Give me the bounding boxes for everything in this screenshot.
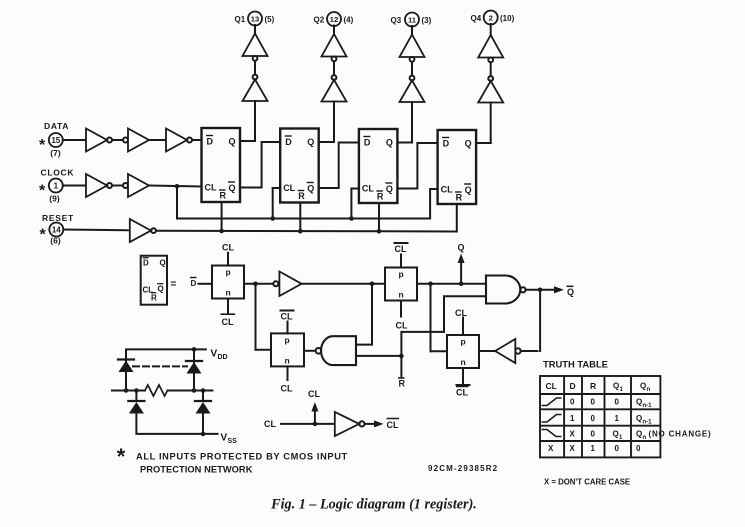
svg-text:X: X xyxy=(548,444,554,453)
svg-text:V: V xyxy=(211,349,218,360)
svg-text:Q: Q xyxy=(636,398,642,407)
svg-text:R: R xyxy=(220,191,227,201)
svg-text:15: 15 xyxy=(51,136,60,145)
svg-text:0: 0 xyxy=(591,414,596,423)
svg-text:CL: CL xyxy=(546,381,557,391)
svg-text:1: 1 xyxy=(591,444,596,453)
svg-text:R: R xyxy=(590,381,596,391)
svg-text:n: n xyxy=(285,356,290,366)
svg-text:p: p xyxy=(399,269,404,279)
svg-text:*: * xyxy=(117,444,126,469)
svg-text:13: 13 xyxy=(251,14,259,23)
svg-text:*: * xyxy=(40,227,47,244)
svg-text:DATA: DATA xyxy=(44,121,69,131)
svg-text:D: D xyxy=(570,381,576,391)
svg-text:Q: Q xyxy=(386,138,393,148)
svg-text:0: 0 xyxy=(591,430,596,439)
svg-text:Q: Q xyxy=(229,137,236,147)
svg-text:p: p xyxy=(461,337,466,347)
svg-text:R: R xyxy=(456,193,463,203)
svg-text:CL: CL xyxy=(362,184,374,194)
svg-text:0: 0 xyxy=(615,398,620,407)
svg-text:PROTECTION NETWORK: PROTECTION NETWORK xyxy=(140,465,253,475)
svg-text:=: = xyxy=(171,279,177,290)
svg-text:CL: CL xyxy=(222,243,234,253)
svg-text:n: n xyxy=(226,288,231,298)
svg-text:D: D xyxy=(443,139,450,149)
svg-text:DD: DD xyxy=(218,354,228,361)
svg-text:R: R xyxy=(151,294,157,303)
svg-text:Q: Q xyxy=(640,382,646,391)
svg-text:CL: CL xyxy=(308,389,320,399)
svg-text:Q: Q xyxy=(307,184,314,194)
svg-text:(6): (6) xyxy=(50,236,61,246)
svg-text:1: 1 xyxy=(570,414,575,423)
svg-text:Fig. 1 – Logic diagram (1 regi: Fig. 1 – Logic diagram (1 register). xyxy=(270,497,477,513)
svg-text:CL: CL xyxy=(222,317,234,327)
svg-text:Q1: Q1 xyxy=(235,15,246,24)
svg-text:X: X xyxy=(570,444,576,453)
svg-text:CL: CL xyxy=(281,384,293,394)
svg-text:CL: CL xyxy=(456,388,468,398)
svg-text:CL: CL xyxy=(455,308,467,318)
svg-text:1: 1 xyxy=(615,414,620,423)
svg-text:Q: Q xyxy=(307,137,314,147)
svg-text:(4): (4) xyxy=(344,15,354,24)
svg-text:0: 0 xyxy=(636,444,641,453)
svg-text:(7): (7) xyxy=(50,148,61,158)
svg-text:ALL INPUTS PROTECTED BY CMOS I: ALL INPUTS PROTECTED BY CMOS INPUT xyxy=(136,452,348,462)
svg-text:CLOCK: CLOCK xyxy=(41,167,75,177)
svg-text:Q: Q xyxy=(567,287,574,297)
svg-text:Q: Q xyxy=(465,185,472,195)
svg-text:p: p xyxy=(285,335,290,345)
svg-text:Q2: Q2 xyxy=(314,15,325,24)
svg-text:(3): (3) xyxy=(422,16,432,25)
svg-text:Q3: Q3 xyxy=(391,16,402,25)
svg-text:CL: CL xyxy=(396,321,408,331)
svg-text:92CM-29385R2: 92CM-29385R2 xyxy=(428,464,498,473)
svg-text:(10): (10) xyxy=(500,14,515,23)
svg-text:D: D xyxy=(207,137,214,147)
svg-text:Q: Q xyxy=(613,382,619,391)
svg-text:R: R xyxy=(298,191,305,201)
svg-text:11: 11 xyxy=(408,15,417,24)
svg-text:CL: CL xyxy=(441,185,453,195)
svg-text:Q: Q xyxy=(636,414,642,423)
svg-text:CL: CL xyxy=(283,183,295,193)
svg-text:CL: CL xyxy=(281,312,293,322)
svg-text:12: 12 xyxy=(330,15,338,24)
svg-text:1: 1 xyxy=(54,181,59,190)
svg-text:V: V xyxy=(221,433,228,444)
svg-text:*: * xyxy=(39,137,46,154)
svg-text:n-1: n-1 xyxy=(643,403,653,409)
svg-text:n-1: n-1 xyxy=(643,420,653,426)
svg-text:Q: Q xyxy=(636,430,642,439)
svg-text:1: 1 xyxy=(620,387,624,393)
svg-text:D: D xyxy=(364,138,371,148)
svg-text:CL: CL xyxy=(387,420,399,430)
svg-text:p: p xyxy=(226,267,231,277)
svg-text:Q: Q xyxy=(158,285,164,294)
svg-text:14: 14 xyxy=(52,225,61,234)
svg-text:n: n xyxy=(399,290,404,300)
svg-text:n: n xyxy=(461,357,466,367)
svg-text:D: D xyxy=(285,137,292,147)
svg-text:CL: CL xyxy=(395,244,407,254)
svg-text:Q: Q xyxy=(613,430,619,439)
svg-text:D: D xyxy=(191,279,197,288)
svg-text:R: R xyxy=(377,192,384,202)
svg-text:D: D xyxy=(143,259,149,268)
svg-text:RESET: RESET xyxy=(42,213,74,223)
svg-text:n: n xyxy=(643,435,647,441)
svg-text:Q: Q xyxy=(465,139,472,149)
svg-text:0: 0 xyxy=(591,398,596,407)
svg-text:Q: Q xyxy=(386,184,393,194)
svg-text:X = DON'T CARE CASE: X = DON'T CARE CASE xyxy=(544,477,630,486)
svg-text:SS: SS xyxy=(228,438,238,445)
svg-text:Q: Q xyxy=(458,243,465,253)
svg-text:(NO CHANGE): (NO CHANGE) xyxy=(649,430,712,439)
svg-text:*: * xyxy=(39,183,46,200)
svg-text:2: 2 xyxy=(489,13,493,22)
svg-text:(9): (9) xyxy=(49,194,60,204)
svg-text:X: X xyxy=(570,430,576,439)
svg-text:Q: Q xyxy=(229,183,236,193)
svg-text:0: 0 xyxy=(570,398,575,407)
svg-text:0: 0 xyxy=(615,444,620,453)
svg-text:Q4: Q4 xyxy=(471,14,482,23)
svg-text:R: R xyxy=(399,379,406,389)
svg-text:TRUTH TABLE: TRUTH TABLE xyxy=(543,358,608,369)
svg-text:Q: Q xyxy=(160,259,166,268)
svg-text:(5): (5) xyxy=(265,15,275,24)
svg-text:CL: CL xyxy=(264,419,276,429)
svg-text:n: n xyxy=(647,387,651,393)
svg-text:CL: CL xyxy=(205,183,217,193)
